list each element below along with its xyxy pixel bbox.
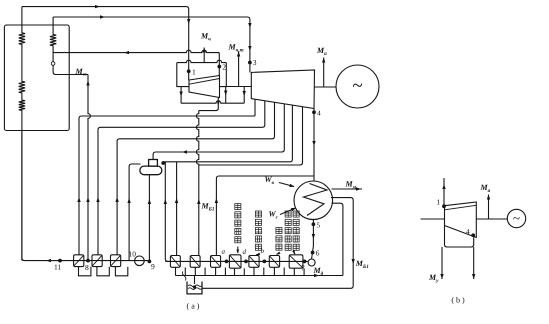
svg-text:4: 4: [317, 108, 321, 117]
boiler rectangle: [4, 25, 69, 131]
(b) M_u line down: [441, 247, 443, 279]
generator gas cooler r7: [289, 255, 303, 268]
wire: extraction f2 to heater box2: [98, 101, 265, 255]
svg-text:11: 11: [54, 263, 61, 272]
node 11: [58, 259, 62, 263]
wire: M_d riser back to condenser: [332, 203, 343, 275]
wire: reheater circle down to M1r corner: [53, 65, 88, 74]
wire: squiggle drain from r1 loop to tank: [182, 272, 186, 281]
drain loop under LP heater r3: [216, 267, 226, 275]
svg-text:3: 3: [253, 58, 257, 67]
node 5: [312, 222, 316, 226]
svg-text:( a ): ( a ): [187, 302, 200, 311]
wire: drain into tank: [194, 276, 196, 285]
wire: cold reheat line y52.6 (reheater to node 2, arrow left): [53, 50, 219, 52]
steam chest box above HP turbine: [177, 60, 227, 62]
generator G1: [336, 65, 379, 108]
node 9: [148, 260, 152, 264]
(b) generator: [507, 209, 525, 227]
deaerator steam head box: [149, 160, 158, 167]
svg-text:( b ): ( b ): [451, 296, 465, 305]
svg-text:~: ~: [352, 76, 362, 97]
node 2: [217, 65, 221, 69]
(b) node 4: [471, 233, 475, 237]
wire: condenser to condensate pump: [312, 219, 314, 246]
drain cooler r5: [249, 256, 259, 268]
wire: extraction f4 to deaerator: [153, 104, 284, 160]
arrow on exhaust line (down): [312, 141, 315, 146]
wire: extraction f6 joins wavy line: [199, 107, 303, 165]
arrow on T1 descent (down): [187, 19, 190, 24]
LP heater r3: [211, 256, 221, 268]
drain loop under box3: [115, 267, 127, 276]
wire: M_B1 return line (tank to M_m line): [202, 198, 353, 289]
node a: [225, 260, 229, 264]
(b) back-pressure turbine: [445, 202, 477, 238]
arrow on M_B1 line (up): [197, 199, 200, 204]
node 3: [248, 61, 252, 65]
wire: deaerator drain down to node 9: [148, 175, 150, 262]
svg-text:1: 1: [437, 198, 441, 207]
LP turbine: [251, 70, 314, 109]
LP heater r2: [190, 256, 200, 268]
svg-text:7: 7: [301, 264, 305, 273]
wire: extraction f7 (tap from exhaust) to heater r3: [216, 176, 314, 256]
node 8: [86, 259, 90, 263]
wire: HP-LP crossover: [220, 86, 252, 88]
feed pump 10: [135, 256, 145, 266]
condensate pump 7: [308, 259, 315, 266]
(b) exhaust loop: [445, 226, 474, 248]
vertical label: oil cooler (3 chars): [276, 228, 282, 251]
svg-text:10: 10: [129, 250, 137, 259]
HP heater box3: [111, 255, 121, 267]
node d: [244, 260, 248, 264]
(b) inlet line node 1b: [443, 178, 445, 206]
svg-text:8: 8: [85, 263, 89, 272]
wire: HP exhaust down-comer with hops (M_B1 branch to heater r2): [199, 97, 219, 110]
wire: M_1r line down to node 8: [88, 75, 90, 261]
wire: extraction f3 to heater box3: [117, 102, 274, 255]
junction dot at deaerator inlet: [161, 161, 165, 165]
boiler left heating chain (economizer/superheater coils): [19, 7, 25, 261]
drain loop under LP heater r1: [176, 267, 186, 275]
arrow on HP exhaust (down): [217, 101, 220, 106]
wire: hot reheat line T2 (reheater to node 3): [53, 17, 250, 72]
svg-text:~: ~: [513, 211, 520, 226]
svg-text:d: d: [243, 248, 247, 256]
shaft to generator: [314, 86, 336, 88]
LP heater r1: [170, 256, 180, 268]
wire: condensate line through coolers: [165, 260, 307, 262]
wire: feedwater line (node 11 to pump 10): [22, 132, 149, 261]
svg-text:9: 9: [151, 262, 155, 271]
drain loop under box2: [97, 267, 109, 276]
boiler right chain (reheater coil): [50, 17, 56, 62]
node 7: [303, 260, 307, 264]
drain loop under generator gas cooler r7: [294, 268, 304, 276]
deaerator tank (capsule): [140, 166, 162, 175]
oil cooler r6: [269, 256, 279, 268]
wire: drain header below HP turbine: [181, 101, 244, 103]
vertical label: ejector condenser (5 chars): [235, 204, 241, 243]
svg-text:2: 2: [222, 63, 226, 72]
attemperator circle on reheater line: [51, 62, 55, 66]
HP turbine: [189, 76, 220, 98]
wire: tap from chest stub to drain header: [180, 87, 182, 104]
node 6: [311, 251, 315, 255]
arrow on T2 (right): [100, 15, 105, 18]
wire: extraction feeder to heater r1: [176, 162, 178, 256]
arrow on M_1r line lower (up): [86, 197, 89, 202]
arrow on feed line (left): [46, 259, 51, 262]
wire: drain collector M_d line: [176, 275, 343, 277]
wire: tap from crossover to drain header: [225, 87, 227, 104]
arrow on M_1r line (up): [86, 81, 89, 86]
HP heater box1: [74, 255, 84, 267]
drain loop under oil cooler r6: [274, 267, 284, 275]
wire: extraction f1 to heater box1: [254, 99, 256, 116]
svg-text:6: 6: [316, 249, 320, 258]
drain loop under ejector condenser r4: [235, 268, 245, 276]
vertical label: generator gas cooler (2 cols): [285, 211, 291, 250]
drain loop under drain cooler r5: [254, 267, 264, 275]
(b) exhaust down line: [473, 247, 475, 279]
node 4 (LP exhaust): [313, 109, 315, 182]
node 1: [187, 69, 191, 73]
HP heater box2: [92, 255, 102, 267]
condenser: [294, 181, 333, 220]
(b) shaft: [421, 218, 445, 220]
vertical label: drain cooler (5 chars): [255, 211, 261, 250]
node b: [263, 260, 267, 264]
wire: tap from crossover (right) to drain header: [243, 87, 245, 104]
wire: deaerator drain (capsule left) down to feed row: [129, 164, 140, 261]
arrow on T2 descent (down): [248, 23, 251, 28]
svg-text:a: a: [222, 248, 226, 256]
wire: condensate riser from heater r1 to deaerator junction: [165, 162, 170, 262]
arrow on T2 descent lower (down): [248, 46, 251, 51]
arrow on T1 (right): [95, 5, 100, 8]
drain tank: [187, 282, 202, 294]
arrow on cold reheat (left): [124, 51, 129, 54]
ejector condenser r4: [229, 255, 241, 268]
wire: extraction f5 (to deaerator junction and down): [164, 105, 293, 162]
drain loop under box1: [79, 267, 91, 276]
svg-text:4: 4: [466, 227, 470, 236]
wire: main steam line T1 (boiler to node 1): [22, 7, 189, 81]
drain loop under LP heater r2: [195, 267, 205, 275]
svg-text:5: 5: [316, 220, 320, 229]
svg-text:1: 1: [192, 68, 196, 77]
